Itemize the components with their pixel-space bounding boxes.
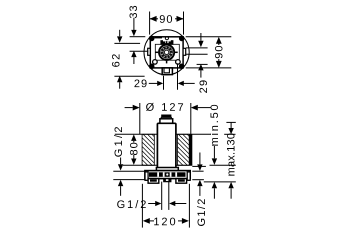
dim 33: [133, 18, 135, 31]
dim 29 right: [200, 33, 202, 41]
dim 90 top: extension lines: [149, 12, 151, 35]
flange bar: [145, 171, 190, 179]
mounting plate: [150, 37, 183, 68]
central valve ring: [159, 45, 174, 60]
dim 29 bottom-left: [149, 82, 158, 84]
top bracket: [160, 40, 173, 45]
flange end cap left: [145, 172, 148, 180]
bottom tab: [162, 68, 172, 75]
small top screw: [165, 37, 168, 40]
dim 90 right: extension lines: [186, 36, 232, 38]
housing skirt: [156, 168, 178, 171]
dim 62: [119, 30, 121, 37]
flange cells: [149, 172, 186, 177]
left tab: [148, 48, 151, 55]
dim G1/2 right: [199, 153, 201, 165]
svg-text:G1/2: G1/2: [196, 197, 208, 226]
ring tick top: [166, 41, 168, 44]
svg-text:29: 29: [198, 79, 210, 94]
washer ring right: [176, 60, 181, 65]
washer ring left: [153, 60, 158, 65]
dim G1/2 bottom center: [161, 182, 163, 210]
svg-text:62: 62: [111, 52, 123, 67]
dim max.130: [226, 121, 235, 123]
svg-text:G1/2: G1/2: [113, 124, 125, 157]
housing collar: [160, 119, 173, 124]
svg-text:max.130: max.130: [226, 133, 238, 177]
svg-text:29: 29: [134, 78, 148, 90]
right tab: [183, 48, 186, 55]
dim G1/2 left: [120, 158, 122, 165]
svg-text:120: 120: [153, 216, 177, 228]
ceiling hatch right: [178, 134, 190, 165]
housing cap: [161, 115, 171, 118]
pointer line from top-left screw: [155, 37, 163, 39]
bottom center port: [164, 179, 171, 182]
svg-text:Ø 127: Ø 127: [146, 102, 186, 114]
svg-text:90: 90: [159, 14, 173, 26]
dim min.50: [213, 146, 215, 158]
ring tick bottom: [166, 61, 168, 64]
svg-text:min.50: min.50: [209, 103, 221, 147]
bottom tab right: [176, 179, 187, 184]
bottom tab left: [148, 179, 159, 184]
svg-text:G1/2: G1/2: [117, 199, 149, 211]
ceiling top line: [115, 133, 158, 135]
dim 120: [141, 184, 143, 228]
svg-text:90: 90: [214, 44, 226, 58]
flange end cap right: [187, 172, 190, 180]
dim 80: [131, 134, 136, 141]
dim 90 right: line and arrows: [218, 43, 220, 46]
svg-text:80: 80: [128, 141, 140, 155]
screw top-right: [179, 36, 185, 42]
inner plate outline: [155, 44, 179, 60]
ring tick right: [175, 51, 178, 53]
ring tick left: [156, 51, 159, 53]
ceiling hatch left: [142, 134, 154, 165]
dim 90 top: line and arrows: [150, 18, 158, 20]
screw bottom-left: [149, 64, 155, 70]
ceiling bottom line: [123, 164, 158, 166]
black bar right of hatch: [189, 134, 192, 165]
housing body: [157, 123, 176, 170]
bracket notch: [165, 41, 168, 43]
flange circle: [144, 30, 189, 75]
svg-text:33: 33: [128, 4, 140, 18]
screw top-left: [149, 36, 155, 42]
screw bottom-right: [179, 64, 185, 70]
dim O127: [125, 107, 133, 109]
